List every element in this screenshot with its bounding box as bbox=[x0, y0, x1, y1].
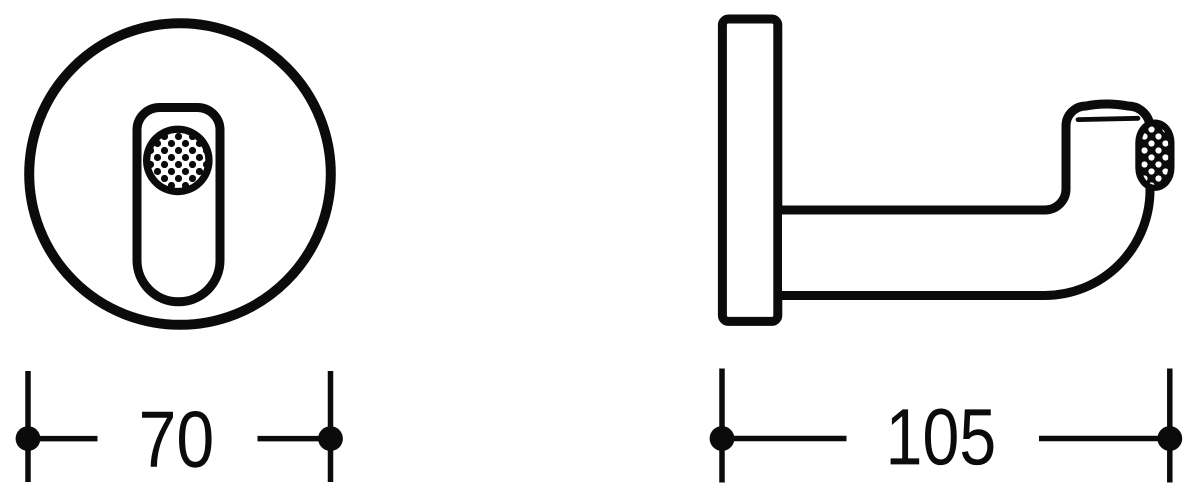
dimension 70: left arrow dot bbox=[16, 426, 41, 451]
hook body front view (pill) bbox=[137, 108, 220, 302]
dimension 105: right dimension line bbox=[1039, 436, 1170, 442]
textured cap front view (halftone disc) bbox=[143, 126, 213, 196]
dimension 70: left extension line bbox=[25, 371, 31, 482]
wall plate side view bbox=[722, 19, 777, 321]
dimension label 105 bbox=[891, 409, 994, 466]
dimension 105: left dimension line bbox=[722, 436, 847, 442]
dimension 105: left arrow dot bbox=[710, 426, 735, 451]
dimension 105: right extension line bbox=[1167, 369, 1173, 483]
dimension 70: right dimension line bbox=[258, 436, 331, 442]
textured cap side view (halftone ellipse) bbox=[1135, 120, 1174, 191]
dimension 105: left extension line bbox=[719, 369, 725, 483]
dimension label 70 bbox=[142, 411, 212, 468]
dimension 70: right arrow dot bbox=[318, 426, 343, 451]
cap seam line bbox=[1078, 118, 1138, 119]
dimension 70: left dimension line bbox=[28, 436, 98, 442]
wall plate front view (circle) bbox=[29, 23, 331, 325]
dimension 70: right extension line bbox=[328, 371, 334, 482]
hook arm side view bbox=[782, 104, 1150, 296]
dimension 105: right arrow dot bbox=[1157, 426, 1182, 451]
